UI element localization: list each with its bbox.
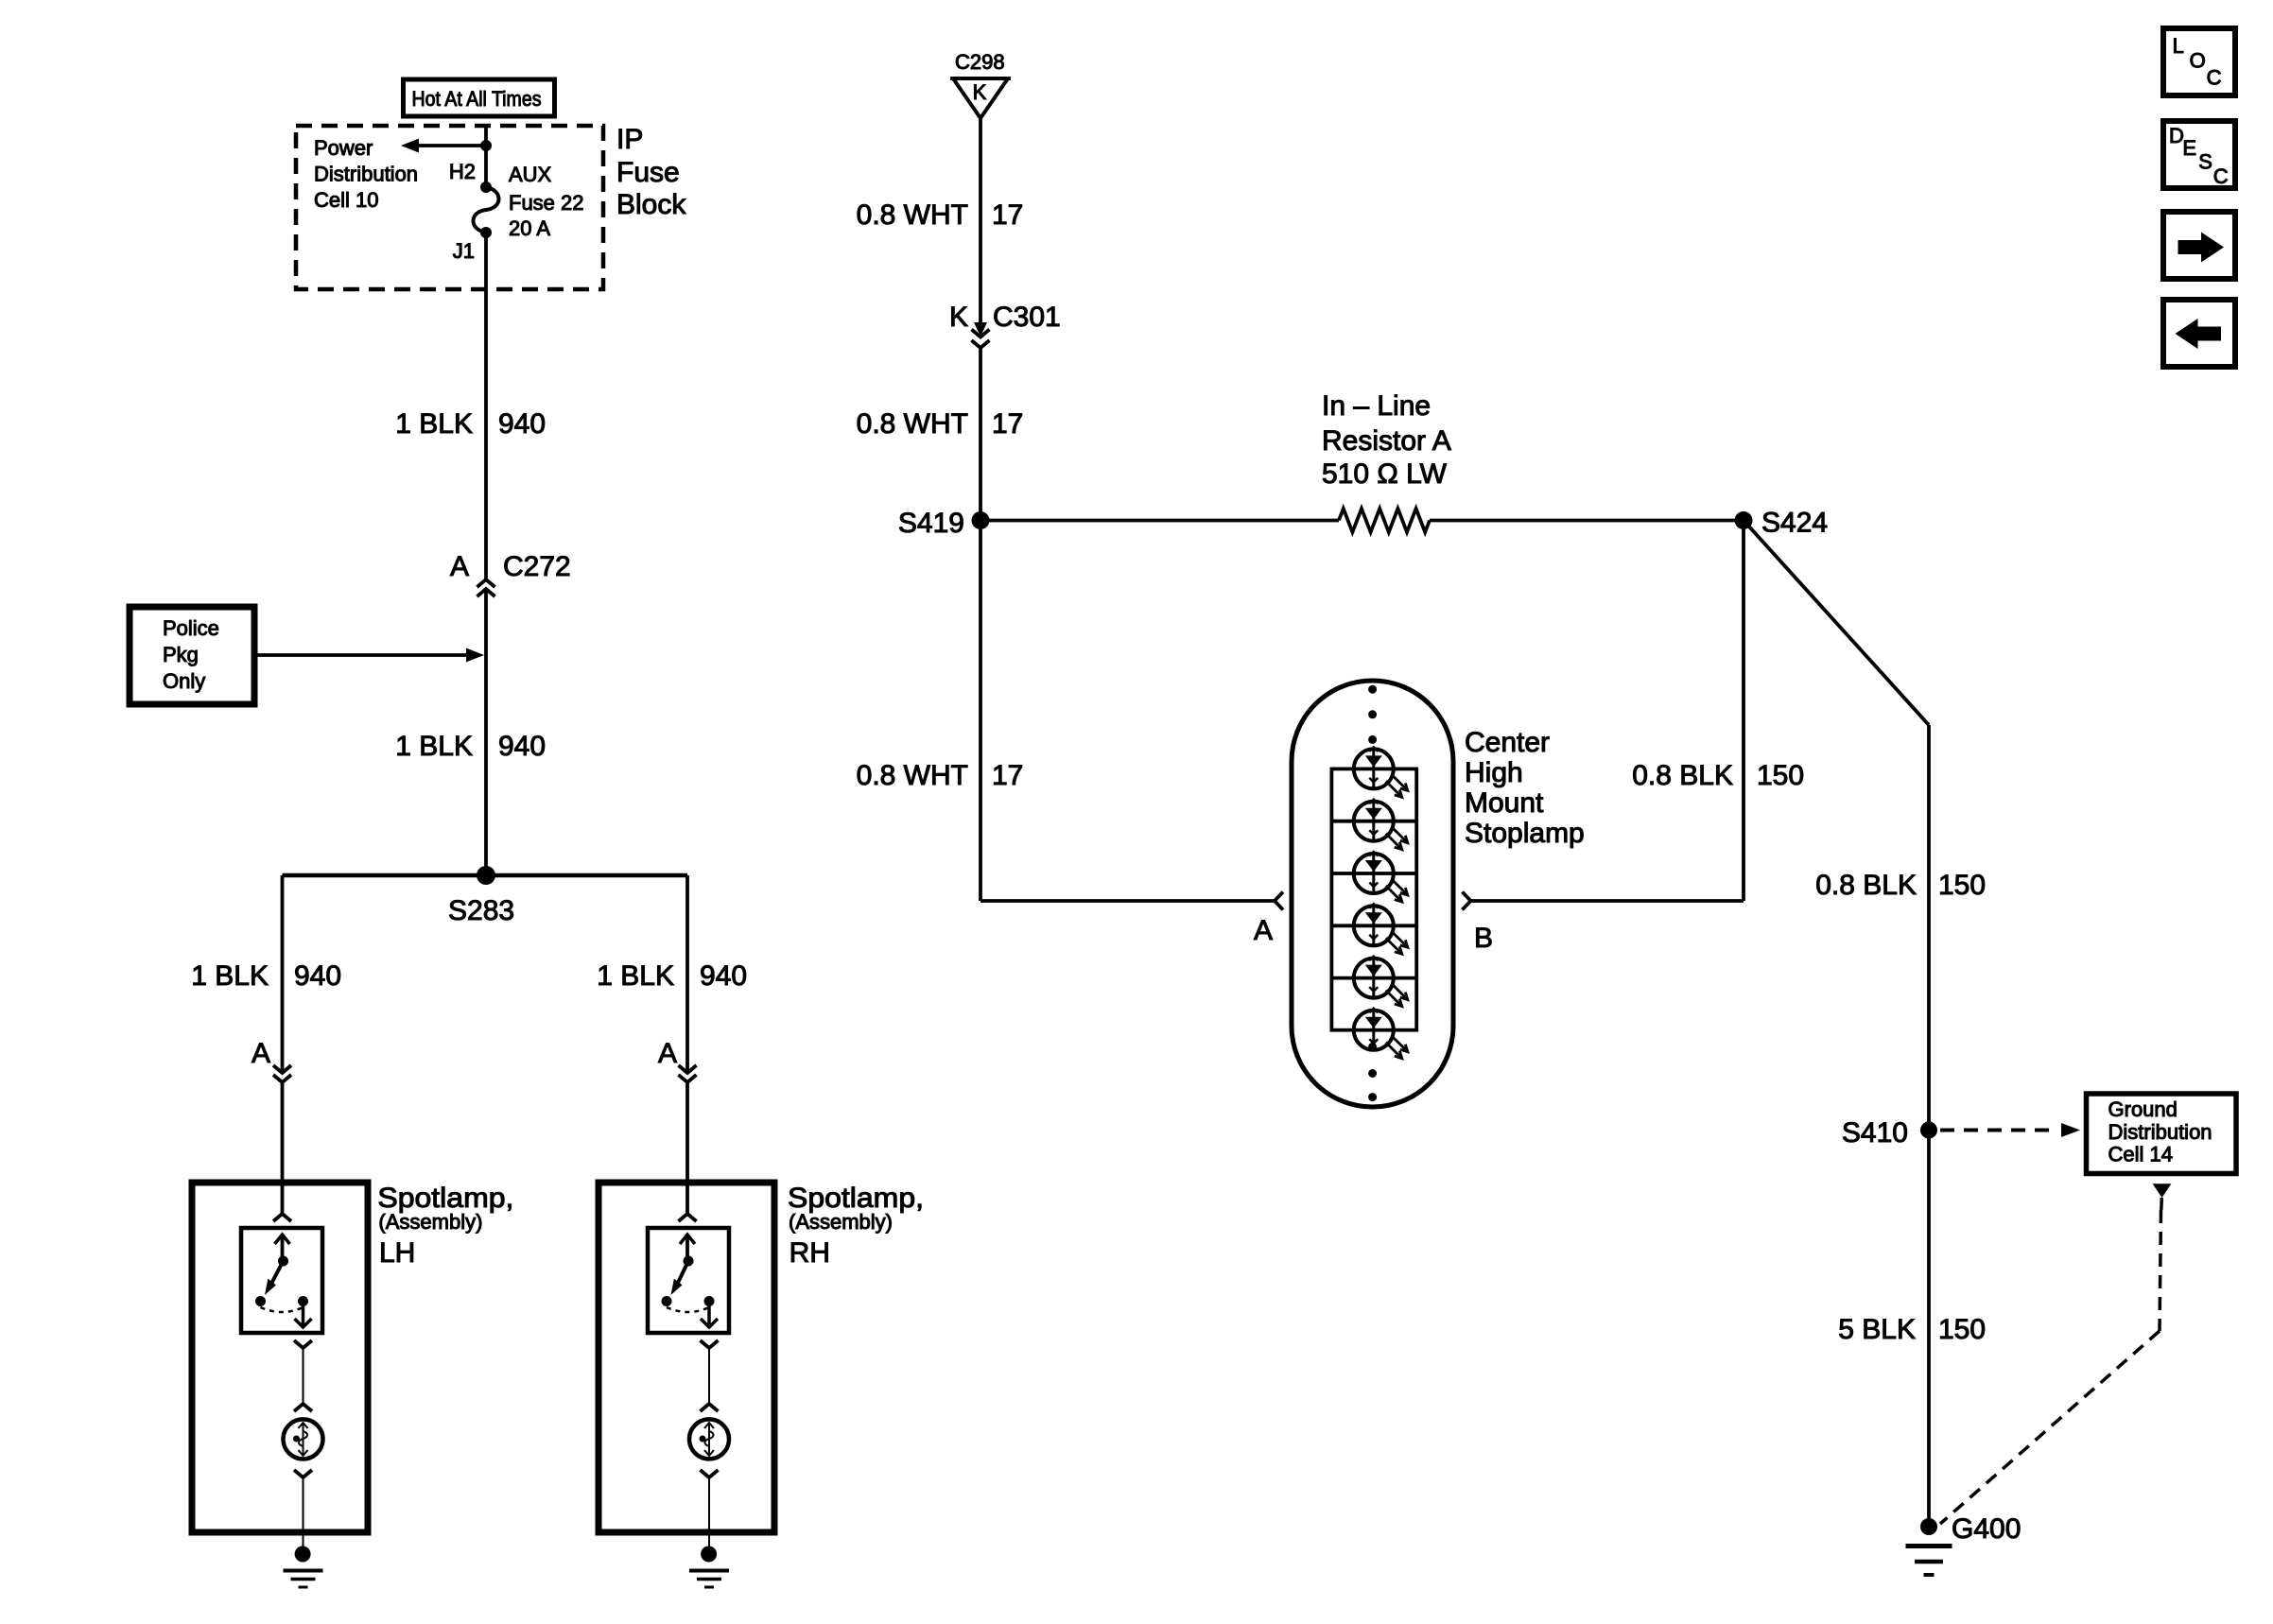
svg-text:Stoplamp: Stoplamp <box>1465 818 1585 849</box>
svg-text:G400: G400 <box>1952 1513 2021 1545</box>
svg-text:150: 150 <box>1938 1314 1986 1345</box>
svg-text:S: S <box>2198 150 2212 174</box>
svg-text:940: 940 <box>700 960 747 992</box>
svg-text:(Assembly): (Assembly) <box>378 1210 482 1234</box>
svg-text:S283: S283 <box>448 895 514 926</box>
svg-text:A: A <box>658 1038 677 1069</box>
svg-text:A: A <box>252 1038 270 1069</box>
svg-text:940: 940 <box>294 960 341 992</box>
svg-text:150: 150 <box>1757 760 1804 791</box>
svg-text:In – Line: In – Line <box>1322 390 1431 422</box>
svg-text:C301: C301 <box>993 302 1061 333</box>
svg-text:Only: Only <box>163 669 205 693</box>
svg-text:0.8 BLK: 0.8 BLK <box>1815 870 1917 901</box>
svg-text:0.8 WHT: 0.8 WHT <box>857 408 968 440</box>
svg-text:Distribution: Distribution <box>2108 1120 2212 1144</box>
svg-text:940: 940 <box>498 408 546 440</box>
svg-text:Hot At All Times: Hot At All Times <box>412 87 542 111</box>
svg-text:K: K <box>949 302 968 333</box>
svg-text:K: K <box>973 80 987 104</box>
svg-text:(Assembly): (Assembly) <box>789 1210 893 1234</box>
svg-text:S410: S410 <box>1842 1117 1908 1149</box>
svg-text:940: 940 <box>498 731 546 762</box>
svg-text:Power: Power <box>314 136 373 160</box>
svg-text:0.8 BLK: 0.8 BLK <box>1632 760 1733 791</box>
svg-text:J1: J1 <box>453 239 475 263</box>
svg-text:0.8 WHT: 0.8 WHT <box>857 199 968 231</box>
svg-text:Mount: Mount <box>1465 787 1544 819</box>
svg-text:L: L <box>2173 34 2184 58</box>
svg-text:Cell 14: Cell 14 <box>2108 1143 2173 1166</box>
svg-text:17: 17 <box>992 199 1023 231</box>
svg-text:150: 150 <box>1938 870 1986 901</box>
svg-text:1 BLK: 1 BLK <box>597 960 674 992</box>
svg-text:1 BLK: 1 BLK <box>395 408 473 440</box>
svg-text:5 BLK: 5 BLK <box>1838 1314 1916 1345</box>
svg-text:Block: Block <box>616 189 686 220</box>
svg-text:AUX: AUX <box>509 163 552 186</box>
svg-text:C298: C298 <box>955 50 1005 74</box>
svg-text:S424: S424 <box>1761 508 1828 539</box>
svg-text:RH: RH <box>789 1237 830 1269</box>
svg-text:A: A <box>1254 915 1273 946</box>
svg-text:B: B <box>1474 923 1493 954</box>
svg-text:C272: C272 <box>503 551 571 582</box>
svg-text:LH: LH <box>379 1237 415 1269</box>
svg-text:Distribution: Distribution <box>314 163 418 186</box>
svg-text:1 BLK: 1 BLK <box>395 731 473 762</box>
svg-text:High: High <box>1465 757 1523 788</box>
svg-text:Police: Police <box>163 616 219 640</box>
svg-text:Fuse 22: Fuse 22 <box>509 191 584 215</box>
svg-text:17: 17 <box>992 760 1023 791</box>
svg-text:O: O <box>2190 49 2206 73</box>
svg-text:Ground: Ground <box>2108 1097 2178 1121</box>
svg-text:C: C <box>2207 66 2222 90</box>
svg-text:E: E <box>2182 136 2196 160</box>
svg-text:S419: S419 <box>898 508 964 539</box>
svg-text:A: A <box>450 551 469 582</box>
svg-text:Pkg: Pkg <box>163 643 199 666</box>
svg-text:Cell 10: Cell 10 <box>314 188 378 212</box>
svg-text:IP: IP <box>616 124 643 155</box>
svg-text:1 BLK: 1 BLK <box>191 960 269 992</box>
svg-text:Resistor A: Resistor A <box>1322 425 1451 457</box>
svg-text:17: 17 <box>992 408 1023 440</box>
svg-text:Fuse: Fuse <box>616 157 680 188</box>
svg-text:Center: Center <box>1465 727 1550 758</box>
svg-text:510 Ω LW: 510 Ω LW <box>1322 458 1448 490</box>
svg-text:C: C <box>2213 164 2229 188</box>
svg-text:0.8 WHT: 0.8 WHT <box>857 760 968 791</box>
svg-text:20 A: 20 A <box>509 216 550 240</box>
svg-text:H2: H2 <box>449 160 476 183</box>
